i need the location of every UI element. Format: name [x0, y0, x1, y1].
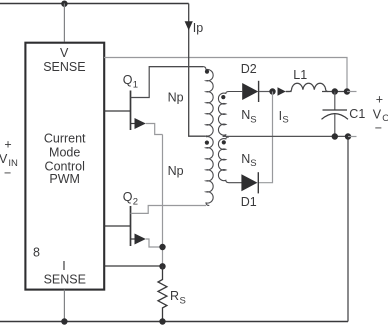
- svg-text:N: N: [241, 152, 250, 166]
- diode D2: [242, 83, 258, 100]
- diode D1: [241, 174, 257, 191]
- transistor Q1 base bar: [130, 91, 132, 131]
- svg-text:V: V: [60, 46, 69, 60]
- op-amp U1 PWM controller box: [25, 43, 104, 290]
- svg-text:D1: D1: [241, 195, 257, 209]
- svg-text:Current: Current: [44, 132, 86, 146]
- junction RS bottom: [159, 318, 165, 324]
- resistor RS: [158, 266, 167, 322]
- transistor Q1 emitter arrow: [131, 123, 135, 125]
- junction diode cathode node: [269, 88, 275, 94]
- svg-text:SENSE: SENSE: [43, 60, 85, 74]
- transistor Q2 emitter arrow: [131, 238, 135, 240]
- svg-text:R: R: [170, 289, 179, 303]
- junction C1 top: [332, 88, 338, 94]
- wire Q1 base from PWM: [104, 110, 131, 112]
- svg-text:N: N: [241, 108, 250, 122]
- wire right return riser: [347, 137, 349, 322]
- junction feedback node: [344, 88, 350, 94]
- transformer T1 secondary upper winding NS: [218, 92, 242, 137]
- inductor L1: [286, 83, 328, 91]
- wire cathode bus down to D1: [258, 92, 272, 183]
- svg-text:S: S: [180, 295, 186, 306]
- svg-text:L1: L1: [293, 68, 307, 82]
- svg-text:Q: Q: [123, 190, 133, 204]
- svg-text:8: 8: [33, 245, 40, 259]
- svg-text:S: S: [250, 158, 256, 169]
- wire L1 to C1 node: [322, 91, 347, 93]
- svg-text:−: −: [4, 166, 11, 180]
- svg-text:+: +: [4, 137, 11, 151]
- wire output return rail from center tap: [223, 135, 348, 137]
- svg-text:Ip: Ip: [193, 21, 203, 35]
- phase dot primary upper: [205, 70, 209, 74]
- svg-text:+: +: [376, 92, 383, 106]
- junction PWM ground: [61, 318, 67, 324]
- junction C1 bottom: [332, 133, 338, 139]
- wire output top rail with L1: [286, 91, 292, 93]
- wire top VIN rail: [0, 3, 189, 5]
- wire bottom return rail: [0, 321, 348, 323]
- junction return riser: [345, 133, 351, 139]
- wire Q2 emitter to bus: [146, 239, 163, 247]
- svg-text:1: 1: [133, 80, 138, 91]
- capacitor C1: [334, 92, 336, 111]
- svg-text:SENSE: SENSE: [44, 273, 86, 287]
- wire Q1 emitter to bus: [146, 124, 163, 135]
- svg-text:C1: C1: [349, 107, 365, 121]
- wire D2 cathode to node: [259, 91, 273, 93]
- svg-text:V: V: [373, 107, 382, 121]
- current arrow IS: [278, 87, 286, 96]
- phase dot secondary lower: [222, 140, 226, 144]
- svg-text:V: V: [0, 152, 8, 166]
- wire Q1 collector to primary top: [131, 67, 204, 98]
- wire emitter bus down to bottom rail: [162, 135, 164, 267]
- transformer T1 primary lower winding Np: [206, 137, 213, 206]
- junction top rail to PWM: [61, 1, 67, 7]
- transistor Q2 base bar: [130, 206, 132, 246]
- junction Q2 emitter on bus: [159, 244, 165, 250]
- svg-text:Np: Np: [168, 164, 184, 178]
- transformer T1 primary upper winding Np: [149, 67, 213, 136]
- svg-text:−: −: [375, 121, 382, 135]
- current arrow Ip: [185, 21, 193, 30]
- svg-text:Np: Np: [168, 91, 184, 105]
- wire top output stub: [347, 91, 357, 93]
- wire V SENSE feedback to output: [104, 58, 347, 92]
- phase dot primary lower: [205, 141, 209, 145]
- svg-text:D2: D2: [241, 62, 257, 76]
- wire bottom output stub: [348, 136, 357, 138]
- svg-text:S: S: [282, 115, 288, 126]
- junction I SENSE on bus: [159, 263, 165, 269]
- svg-text:Mode: Mode: [49, 145, 80, 159]
- svg-text:I: I: [62, 259, 65, 273]
- wire Ip feed from rail to primary center tap: [189, 4, 206, 137]
- wire PWM ground to bottom rail: [63, 290, 65, 322]
- svg-text:S: S: [250, 114, 256, 125]
- wire junction down to PWM box top: [63, 4, 65, 42]
- transformer T1 secondary lower winding NS: [218, 137, 241, 183]
- wire Q2 collector to primary bottom: [131, 206, 207, 214]
- svg-text:2: 2: [133, 197, 138, 208]
- svg-text:Q: Q: [123, 73, 133, 87]
- wire I SENSE from PWM to bus: [104, 265, 163, 267]
- wire Q2 base from PWM: [104, 225, 131, 227]
- svg-text:O: O: [382, 113, 388, 124]
- svg-text:PWM: PWM: [49, 172, 80, 186]
- phase dot secondary upper: [221, 95, 225, 99]
